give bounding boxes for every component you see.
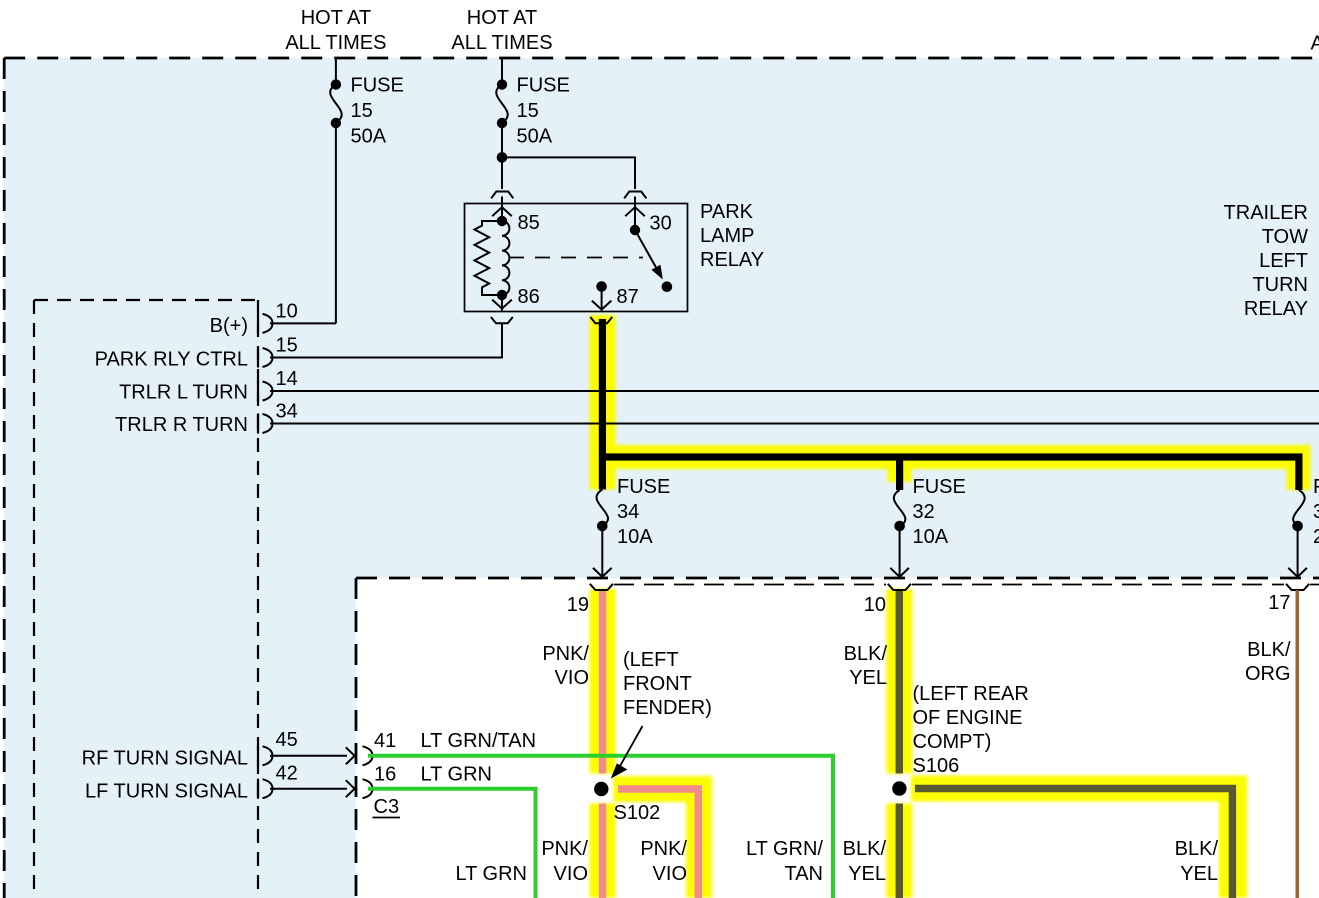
fuse F15 right: element [496,85,508,123]
wire: B(+) pin 10 [270,322,336,324]
svg-text:FRONT: FRONT [623,673,692,695]
connector cup wire 17 entry [1286,584,1309,590]
svg-text:VIO: VIO [653,863,687,885]
svg-text:S106: S106 [913,755,960,777]
svg-text:LT GRN/: LT GRN/ [746,838,823,860]
fuse F15 left: top dot [331,79,341,89]
fuse F15 left: bottom dot [331,118,341,128]
relay K1 box (PARK LAMP RELAY) [465,204,688,312]
module pin 45 connector [257,746,259,766]
relay pin 86 dot [497,290,507,300]
component box dashed border top [356,577,1319,580]
wire core: wire 19 PNK/VIO pink upper [599,589,606,774]
component pin 16 connector brace [363,779,373,798]
svg-text:YEL: YEL [848,863,886,885]
fuse F32: output arrow [890,526,909,577]
svg-text:PARK: PARK [700,201,754,223]
wire core: wire 10 BLK/YEL olive upper [896,589,903,774]
svg-text:15: 15 [517,100,539,122]
fuse F34: output arrow [593,526,612,577]
svg-text:YEL: YEL [849,667,887,689]
svg-text:YEL: YEL [1180,863,1218,885]
component box (white area) [356,578,1319,898]
svg-text:LEFT: LEFT [1259,250,1308,272]
svg-text:FUSE: FUSE [517,75,570,97]
svg-text:B(+): B(+) [210,315,248,337]
svg-text:(LEFT: (LEFT [623,649,679,671]
svg-text:TRLR R TURN: TRLR R TURN [115,414,248,436]
svg-text:50A: 50A [517,126,553,148]
svg-text:32: 32 [913,501,935,523]
relay pin 85 dot [497,216,507,226]
relay coil winding (loops) [502,221,509,295]
svg-text:10: 10 [864,594,886,616]
svg-text:RELAY: RELAY [700,249,764,271]
svg-text:PNK/: PNK/ [542,643,589,665]
relay coil resistive element (zigzag) [475,221,503,295]
wire: RF TURN SIGNAL pin 45 to component [270,755,347,757]
svg-text:HOT AT: HOT AT [467,7,537,29]
svg-text:19: 19 [567,594,589,616]
svg-text:15: 15 [351,100,373,122]
outer dashed border left [3,58,6,898]
svg-text:FENDER): FENDER) [623,697,712,719]
fuse right: bottom dot [1292,521,1303,532]
svg-text:FUSE: FUSE [351,75,404,97]
svg-text:LAMP: LAMP [700,225,754,247]
svg-text:86: 86 [518,286,540,308]
yellow highlight: horizontal bus [598,445,1311,469]
wire core: right bus corner black [1295,457,1302,490]
outer dashed border top [4,57,1319,60]
svg-text:TRAILER: TRAILER [1224,202,1308,224]
svg-text:10: 10 [276,301,298,323]
connector cap above pin 30 [624,192,646,199]
wire 17 BLK/ORG [1296,590,1300,898]
arrowhead into component (pin 16) [346,780,355,797]
svg-text:C3: C3 [374,796,400,818]
svg-text:BLK/: BLK/ [1175,838,1219,860]
wire core: relay output vertical black [599,319,606,490]
svg-text:FUSE: FUSE [913,476,966,498]
svg-text:33: 33 [1313,501,1319,523]
svg-text:ALL TIMES: ALL TIMES [451,32,552,54]
wire 16 LT GRN [368,789,536,898]
yellow highlight: wire 19 PNK/VIO vertical lower [590,804,616,898]
yellow highlight: wire 19 PNK/VIO vertical upper [590,589,616,774]
wire core: horizontal bus black [600,453,1303,460]
module pin 34 connector [257,414,259,434]
svg-text:34: 34 [276,401,298,423]
connector cup below pin 86 [491,317,513,323]
yellow highlight: fuse 32 stub [887,457,911,482]
svg-text:10A: 10A [913,526,949,548]
svg-text:16: 16 [374,764,396,786]
svg-text:TOW: TOW [1262,226,1308,248]
wire: LF TURN SIGNAL pin 42 to component [270,788,347,790]
wire: fuse 15 (right) feed [501,58,503,189]
yellow highlight: wire 10 BLK/YEL vertical upper [886,589,912,774]
wire 41 LT GRN/TAN [368,756,833,898]
fuse F34: bottom dot [597,521,608,532]
svg-text:15: 15 [276,335,298,357]
svg-text:FUSE: FUSE [1313,476,1319,498]
component box dashed border left [355,578,358,898]
fuse F15 left: element [330,85,342,123]
svg-text:10A: 10A [617,526,653,548]
fuse F15 right: top dot [497,79,507,89]
relay pin 87 dot [596,281,607,292]
splice S106 [892,781,906,795]
left module dashed border (right) [257,300,259,898]
svg-text:14: 14 [276,368,298,390]
svg-text:BLK/: BLK/ [1247,639,1291,661]
wire: junction to relay pin 30 [502,157,635,189]
yellow highlight: S106 branch horizontal [911,776,1247,802]
relay internal dashed link [509,257,643,259]
fuse F15 right: bottom dot [497,118,507,128]
svg-text:BLK/: BLK/ [844,643,888,665]
left module area (blue background) [4,578,356,898]
fuse F32: bottom dot [894,521,905,532]
splice S102 [594,782,608,796]
svg-text:PNK/: PNK/ [541,838,588,860]
svg-text:FUSE: FUSE [617,476,670,498]
svg-text:42: 42 [276,763,298,785]
relay pin 87 lead with arrow [592,287,612,311]
relay switch arm [635,230,657,268]
svg-text:TRLR L TURN: TRLR L TURN [119,382,248,404]
svg-text:RELAY: RELAY [1244,298,1308,320]
wire core: wire 10 BLK/YEL olive lower [896,804,903,898]
relay pin 85 lead with arrow [492,197,512,222]
arrowhead into component (pin 41) [346,747,355,764]
svg-text:COMPT): COMPT) [913,731,992,753]
svg-text:LT GRN: LT GRN [456,863,528,885]
svg-text:41: 41 [374,730,396,752]
svg-text:45: 45 [276,729,298,751]
relay pin 86 lead with arrow [492,295,512,311]
junction dot [497,152,508,163]
module pin 10 connector [257,313,259,333]
connector cup wire 10 entry [888,584,911,590]
wire core: S106 branch BLK/YEL olive [915,789,1232,898]
fuse F34: element [597,490,609,526]
yellow highlight: right bus corner drop [1287,445,1311,490]
yellow highlight: relay output wire vertical (pin 87 to fuse 34) [590,315,616,490]
fuse right (cut off): element [1293,490,1305,526]
wire core: fuse 32 stub black [896,457,903,490]
svg-text:ORG: ORG [1245,663,1291,685]
relay pin 30 dot [630,225,640,235]
connector cap above pin 85 [491,192,513,199]
svg-text:85: 85 [518,212,540,234]
svg-text:LF TURN SIGNAL: LF TURN SIGNAL [85,781,248,803]
wire: relay pin 86 drop [501,324,503,358]
svg-text:30: 30 [650,213,672,235]
svg-text:LT GRN: LT GRN [421,764,493,786]
svg-text:PNK/: PNK/ [640,838,687,860]
wire: fuse 15 (left) drop to B(+) [335,58,337,323]
component pin 41 connector brace [363,746,373,765]
relay switch arm arrowhead [651,265,662,280]
yellow highlight: S106 branch vertical [1219,776,1247,898]
left module dashed border (left) [33,300,35,898]
svg-text:ALL TIMES: ALL TIMES [285,32,386,54]
svg-text:VIO: VIO [554,863,588,885]
svg-text:BLK/: BLK/ [843,838,887,860]
yellow highlight: S102 branch vertical [686,776,712,898]
svg-text:VIO: VIO [555,667,589,689]
fuse F32: element [894,490,906,526]
yellow highlight: S102 branch horizontal [614,776,713,802]
svg-text:87: 87 [617,286,639,308]
svg-text:RF TURN SIGNAL: RF TURN SIGNAL [82,748,248,770]
wire: PARK RLY CTRL pin 15 [270,324,502,358]
power distribution area (blue background) [4,58,1319,578]
wire core: wire 19 PNK/VIO pink lower [599,804,606,898]
module pin 15 connector [257,348,259,368]
svg-text:34: 34 [617,501,639,523]
svg-text:OF ENGINE: OF ENGINE [913,707,1023,729]
component box inner connector rail (thin dashed) [614,584,886,586]
connector cup below pin 87 [590,317,612,323]
module pin 42 connector [257,779,259,799]
module pin 14 connector [257,381,259,401]
wire: TRLR R TURN pin 34 [270,423,1319,425]
wire: TRLR L TURN pin 14 [270,390,1319,392]
fuse right: output arrow [1288,526,1307,577]
label arrow to S102 [613,726,643,777]
svg-text:20A: 20A [1313,526,1319,548]
connector cup wire 19 entry [590,584,613,590]
svg-text:TURN: TURN [1252,274,1308,296]
svg-text:(LEFT REAR: (LEFT REAR [913,683,1029,705]
svg-text:50A: 50A [351,126,387,148]
relay switch contact dot [662,281,673,292]
left module dashed border (top) [34,299,258,301]
svg-text:TAN: TAN [784,863,823,885]
svg-text:PARK RLY CTRL: PARK RLY CTRL [95,349,248,371]
svg-text:S102: S102 [614,802,661,824]
svg-text:A: A [1311,33,1319,55]
relay pin 30 lead with arrow [625,197,645,231]
svg-text:HOT AT: HOT AT [301,7,371,29]
wire core: S102 branch PNK/VIO pink [618,789,698,898]
svg-text:LT GRN/TAN: LT GRN/TAN [421,730,537,752]
svg-text:17: 17 [1268,592,1290,614]
yellow highlight: wire 10 BLK/YEL vertical lower [886,804,912,898]
